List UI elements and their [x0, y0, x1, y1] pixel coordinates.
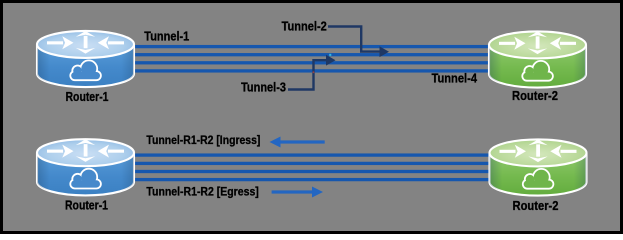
node connection-point artifact (red)	[313, 71, 315, 73]
wire tunnel-3 line	[128, 61, 495, 64]
arrowhead tunnel-2	[380, 46, 390, 57]
svg-text:Tunnel-1: Tunnel-1	[144, 29, 189, 44]
wire tunnel-2 connector elbow	[328, 27, 380, 52]
router R2 (bottom)	[490, 139, 587, 195]
svg-text:Router-2: Router-2	[513, 198, 559, 213]
svg-text:Tunnel-R1-R2 [Ingress]: Tunnel-R1-R2 [Ingress]	[146, 133, 260, 147]
svg-text:Router-1: Router-1	[66, 89, 109, 104]
wire tunnel-3 connector elbow	[288, 60, 328, 89]
wire tunnel-R1-R2 line 3 (bottom)	[128, 170, 495, 173]
wire tunnel-1 line	[128, 45, 495, 48]
svg-text:Tunnel-3: Tunnel-3	[241, 80, 286, 95]
router R1 (top)	[37, 31, 134, 87]
wire tunnel-R1-R2 line 2 (bottom)	[128, 162, 495, 165]
node connection-point artifact (cyan)	[329, 54, 331, 56]
svg-text:Tunnel-2: Tunnel-2	[282, 18, 327, 33]
arrow ingress (points left)	[270, 137, 325, 148]
arrow egress (points right)	[272, 187, 323, 198]
svg-text:Tunnel-4: Tunnel-4	[432, 70, 478, 85]
wire tunnel-R1-R2 line 1 (bottom)	[128, 153, 495, 156]
wire tunnel-R1-R2 line 4 (bottom)	[128, 178, 495, 181]
router R1 (bottom)	[37, 139, 134, 195]
wire tunnel-4 line	[128, 69, 495, 72]
svg-text:Router-2: Router-2	[512, 88, 558, 103]
wire tunnel-2 line	[128, 53, 495, 56]
svg-text:Tunnel-R1-R2 [Egress]: Tunnel-R1-R2 [Egress]	[146, 185, 258, 199]
svg-text:Router-1: Router-1	[65, 197, 108, 212]
arrowhead tunnel-3	[326, 55, 336, 66]
router R2 (top)	[489, 31, 586, 87]
